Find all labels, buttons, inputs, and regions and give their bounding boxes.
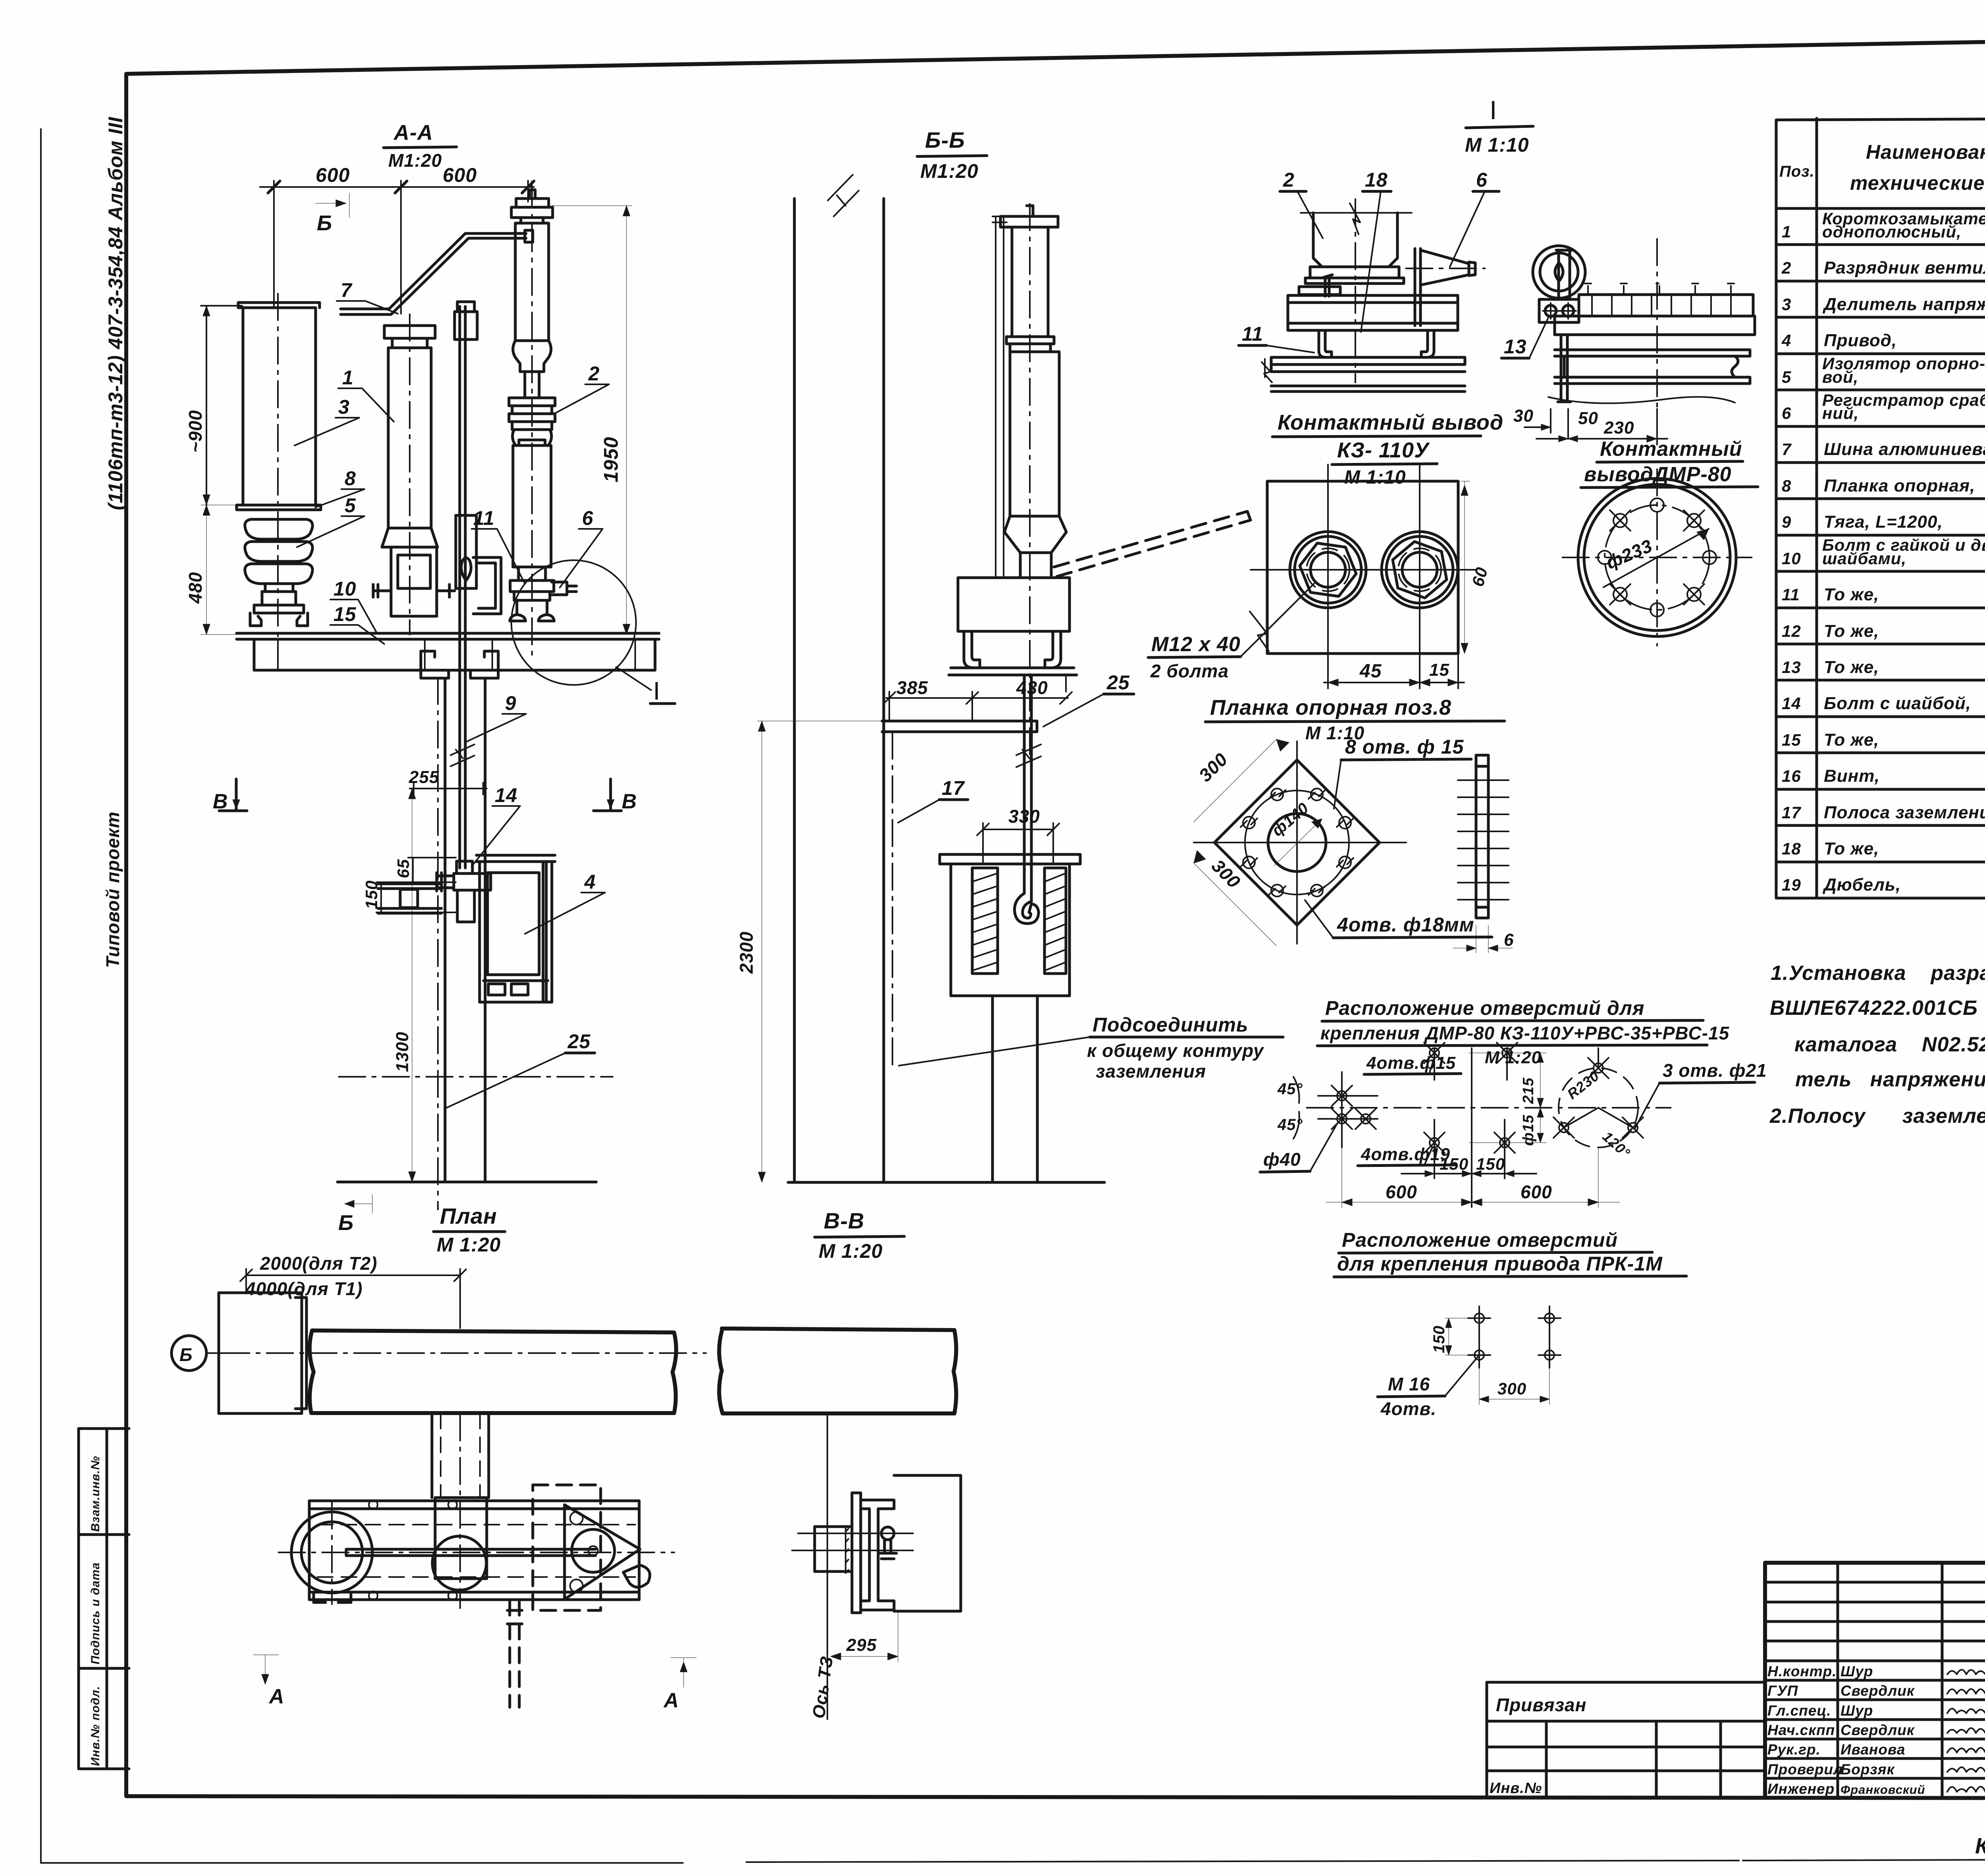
bracket box right of rod xyxy=(473,557,501,614)
svg-text:480: 480 xyxy=(185,572,206,604)
drive pad dashed xyxy=(533,1485,601,1610)
svg-text:300: 300 xyxy=(1497,1379,1526,1398)
pole head channels xyxy=(421,651,498,678)
title block signature grid xyxy=(1765,1563,1985,1798)
B-B ground line xyxy=(788,1181,1104,1184)
svg-text:Нач.скпп: Нач.скпп xyxy=(1767,1722,1835,1738)
svg-text:10: 10 xyxy=(1782,549,1801,568)
svg-text:Н.контр.: Н.контр. xyxy=(1767,1663,1837,1679)
svg-text:150: 150 xyxy=(1440,1155,1469,1173)
svg-text:Рук.гр.: Рук.гр. xyxy=(1767,1741,1821,1758)
svg-text:Франковский: Франковский xyxy=(1840,1783,1925,1797)
paper edge left xyxy=(40,129,42,1863)
planka diag dim 300 lower xyxy=(1194,850,1276,946)
svg-text:Проверил: Проверил xyxy=(1767,1761,1843,1778)
PRK dim 150 xyxy=(1445,1318,1474,1355)
svg-text:2300: 2300 xyxy=(736,931,757,974)
svg-text:Расположение отверстий для: Расположение отверстий для xyxy=(1325,997,1644,1019)
planka diag dim 300 upper xyxy=(1194,739,1289,822)
DMR-80 rail xyxy=(1555,350,1750,384)
apparatus mid cylinder xyxy=(1010,352,1059,516)
left bracket strips xyxy=(378,884,441,913)
svg-text:Ось ТЗ: Ось ТЗ xyxy=(809,1655,837,1720)
svg-text:430: 430 xyxy=(1016,677,1048,698)
svg-text:Расположение отверстий: Расположение отверстий xyxy=(1342,1229,1618,1251)
svg-text:(1106тп-т3-12) 407-3-354,84 А: (1106тп-т3-12) 407-3-354,84 Альбом III xyxy=(104,117,127,510)
PRK dim 300 xyxy=(1479,1366,1549,1405)
svg-text:2: 2 xyxy=(1781,258,1791,277)
bolt M12 right xyxy=(1382,532,1458,608)
svg-text:3: 3 xyxy=(338,396,350,418)
svg-text:15: 15 xyxy=(333,603,357,625)
svg-text:2.Полосу заземления к: 2.Полосу заземления к металлоконструкции… xyxy=(1769,1105,1985,1128)
svg-text:12: 12 xyxy=(1782,622,1801,640)
plan drive frame xyxy=(309,1501,639,1600)
svg-text:45°: 45° xyxy=(1277,1080,1303,1098)
svg-text:4отв.: 4отв. xyxy=(1380,1398,1436,1419)
svg-text:385: 385 xyxy=(896,677,928,698)
channel feet xyxy=(964,631,1061,668)
pos.5 insulator ONSh-35 xyxy=(245,519,312,539)
lower dashed rod xyxy=(510,1600,519,1707)
V-V bolt with ball xyxy=(881,1527,894,1540)
svg-text:шайбами,: шайбами, xyxy=(1822,549,1906,568)
svg-text:Свердлик: Свердлик xyxy=(1840,1722,1915,1738)
title block outer xyxy=(1765,1563,1985,1798)
rear arm verticals xyxy=(992,216,1007,576)
svg-text:1950: 1950 xyxy=(600,437,622,482)
V-V pole axis line xyxy=(827,1413,828,1719)
base channel xyxy=(237,633,659,670)
svg-text:4000(для Т1): 4000(для Т1) xyxy=(245,1278,363,1299)
svg-text:ний,: ний, xyxy=(1822,404,1859,422)
KZ-110U contact plate xyxy=(1267,481,1458,654)
svg-text:В-В: В-В xyxy=(824,1208,865,1233)
svg-text:1: 1 xyxy=(342,366,354,389)
svg-text:М 1:20: М 1:20 xyxy=(437,1234,501,1256)
svg-text:Планка опорная,: Планка опорная, xyxy=(1824,476,1975,496)
plate break mark xyxy=(1250,611,1269,651)
svg-text:15: 15 xyxy=(1782,731,1801,749)
svg-text:Б: Б xyxy=(179,1344,193,1365)
svg-text:~900: ~900 xyxy=(185,410,206,453)
svg-text:тель напряжения).: тель напряжения). xyxy=(1795,1068,1985,1091)
bottom holes 4otv f19 xyxy=(1430,1138,1439,1147)
svg-text:М1:20: М1:20 xyxy=(920,160,979,182)
dim 45 / 15 xyxy=(1324,608,1464,688)
svg-text:2 болта: 2 болта xyxy=(1150,661,1229,681)
svg-text:Наименование и: Наименование и xyxy=(1866,141,1985,163)
svg-text:ГУП: ГУП xyxy=(1767,1683,1798,1699)
lower swing rod xyxy=(1024,675,1031,893)
holes layout centerline xyxy=(1306,1107,1671,1109)
svg-text:295: 295 xyxy=(846,1635,877,1655)
svg-text:крепления ДМР-80 КЗ-110У+РВС-3: крепления ДМР-80 КЗ-110У+РВС-35+РВС-15 xyxy=(1320,1023,1730,1043)
dim 150 xyxy=(376,882,456,912)
svg-text:М 1:20: М 1:20 xyxy=(1485,1048,1542,1067)
dim 255 xyxy=(410,783,487,794)
dim 60 right xyxy=(1461,481,1470,654)
planka diamond plate xyxy=(1214,760,1380,925)
svg-text:30: 30 xyxy=(1513,406,1534,426)
arrester base in detail circle xyxy=(510,567,554,600)
svg-text:Гл.спец.: Гл.спец. xyxy=(1767,1702,1831,1719)
svg-text:18: 18 xyxy=(1365,169,1388,191)
svg-text:То же,: То же, xyxy=(1824,730,1879,750)
svg-text:ВШЛЕ674222.001СБ 1982г. ВЗ: ВШЛЕ674222.001СБ 1982г. ВЗВА (короткозам… xyxy=(1770,997,1985,1020)
svg-text:Контактный вывод: Контактный вывод xyxy=(1278,411,1503,434)
svg-text:каталога N02.52.04.81 (разр: каталога N02.52.04.81 (разрядник) и ТУ.1… xyxy=(1794,1033,1985,1056)
bottom dims 150 150 600 600 xyxy=(1401,1147,1536,1207)
svg-text:Инженер: Инженер xyxy=(1767,1781,1835,1797)
detail I channel feet xyxy=(1319,330,1434,357)
detail I bolts xyxy=(1322,275,1332,296)
svg-text:25: 25 xyxy=(1106,671,1130,694)
pos.4 drive box PRK xyxy=(476,855,555,1002)
svg-text:300: 300 xyxy=(1195,749,1231,786)
svg-text:I: I xyxy=(1490,95,1497,125)
svg-text:25: 25 xyxy=(567,1030,591,1053)
svg-text:Копировал: Слуцкая: Копировал: Слуцкая xyxy=(1975,1833,1985,1858)
svg-text:Б: Б xyxy=(338,1211,354,1235)
flange bolt holes xyxy=(1703,551,1716,564)
svg-text:однополюсный,: однополюсный, xyxy=(1822,222,1962,241)
pos.2 arrester RVS column xyxy=(511,190,553,223)
svg-text:М1:20: М1:20 xyxy=(388,150,442,171)
svg-text:8 отв. ф 15: 8 отв. ф 15 xyxy=(1345,736,1464,758)
svg-text:Контактный: Контактный xyxy=(1600,438,1742,461)
svg-text:Борзяк: Борзяк xyxy=(1840,1761,1895,1778)
svg-text:19: 19 xyxy=(1782,875,1801,894)
svg-text:13: 13 xyxy=(1782,658,1801,677)
plan main beam piece 1 xyxy=(310,1330,676,1413)
svg-text:11: 11 xyxy=(473,507,495,529)
dim 2300 xyxy=(757,721,881,1182)
svg-text:Делитель напряжения,: Делитель напряжения, xyxy=(1822,295,1985,314)
svg-text:7: 7 xyxy=(1782,440,1792,459)
hook xyxy=(1015,893,1039,924)
drive wheel xyxy=(291,1512,372,1593)
pos.8 support plate xyxy=(237,505,321,510)
svg-text:Привод,: Привод, xyxy=(1824,331,1897,350)
svg-text:45°: 45° xyxy=(1277,1116,1303,1134)
svg-text:Шур: Шур xyxy=(1840,1702,1873,1719)
plan left block xyxy=(219,1293,306,1413)
svg-text:Шур: Шур xyxy=(1840,1663,1873,1679)
detail I base plate xyxy=(1271,357,1465,372)
svg-text:Иванова: Иванова xyxy=(1840,1741,1905,1758)
svg-text:65: 65 xyxy=(394,859,412,878)
svg-text:11: 11 xyxy=(1242,323,1263,345)
svg-text:4отв.ф15: 4отв.ф15 xyxy=(1366,1053,1456,1073)
svg-text:А-А: А-А xyxy=(393,121,433,145)
svg-text:4отв.ф19: 4отв.ф19 xyxy=(1361,1145,1450,1164)
counterweight box xyxy=(940,854,1080,996)
dim 385/430 xyxy=(883,675,1072,721)
triangle plate xyxy=(565,1505,640,1599)
svg-text:То же,: То же, xyxy=(1824,621,1879,641)
dim 600+600 xyxy=(260,181,534,314)
detail I flange plates xyxy=(1305,267,1404,283)
DMR-80 ribbed cap row xyxy=(1579,295,1753,316)
svg-text:6: 6 xyxy=(1504,930,1514,950)
svg-text:Разрядник вентильный,: Разрядник вентильный, xyxy=(1824,258,1985,278)
svg-text:6: 6 xyxy=(1476,169,1488,191)
svg-text:I: I xyxy=(653,677,660,705)
section marker A right xyxy=(671,1658,696,1687)
section marker V right xyxy=(594,779,621,811)
svg-text:Привязан: Привязан xyxy=(1496,1695,1586,1715)
flange dia label xyxy=(1603,529,1709,587)
beam centerline xyxy=(222,1352,707,1354)
left pair holes with 45deg xyxy=(1337,1091,1347,1101)
svg-text:Дюбель,: Дюбель, xyxy=(1822,875,1901,895)
svg-text:6: 6 xyxy=(1782,404,1791,422)
svg-text:Типовой проект: Типовой проект xyxy=(102,812,123,968)
node B circle xyxy=(172,1336,206,1371)
pos.3 voltage divider phantom box xyxy=(238,303,320,505)
DMR-80 break line bottom xyxy=(1548,397,1735,403)
rod break mark xyxy=(451,744,474,766)
svg-text:Подсоединить: Подсоединить xyxy=(1093,1014,1249,1036)
privyazan block xyxy=(1487,1682,1765,1798)
svg-text:1300: 1300 xyxy=(393,1032,412,1072)
svg-text:16: 16 xyxy=(1782,767,1801,785)
plate centerlines xyxy=(1251,465,1477,687)
section marker B bottom xyxy=(345,1194,372,1213)
svg-text:4отв. ф18мм: 4отв. ф18мм xyxy=(1337,914,1474,936)
svg-text:150: 150 xyxy=(1476,1155,1505,1173)
detail I insulator bottom xyxy=(1313,213,1397,267)
spec table grid xyxy=(1776,117,1985,898)
DMR-80 vertical bolt left xyxy=(1556,250,1572,402)
svg-text:Б: Б xyxy=(317,211,332,235)
svg-text:вой,: вой, xyxy=(1822,368,1858,386)
svg-text:То же,: То же, xyxy=(1824,585,1879,604)
svg-text:Взам.инв.№: Взам.инв.№ xyxy=(89,1456,102,1532)
svg-text:1: 1 xyxy=(1782,222,1791,241)
svg-text:Шина алюминиевая,: Шина алюминиевая, xyxy=(1824,440,1985,459)
svg-text:Планка опорная поз.8: Планка опорная поз.8 xyxy=(1210,696,1451,719)
bolt M12 left xyxy=(1290,532,1366,608)
middle gear circle xyxy=(432,1536,486,1590)
svg-text:Винт,: Винт, xyxy=(1824,766,1880,786)
planka holes xyxy=(1339,856,1351,868)
section marker V left xyxy=(219,779,247,811)
pos.7 bus bar arm xyxy=(341,233,526,314)
detail I label xyxy=(616,667,651,690)
svg-text:600: 600 xyxy=(1521,1182,1552,1202)
svg-text:330: 330 xyxy=(1008,806,1040,827)
svg-text:Инв.№: Инв.№ xyxy=(1490,1780,1542,1797)
svg-text:Тяга, L=1200,: Тяга, L=1200, xyxy=(1824,512,1943,532)
svg-text:2: 2 xyxy=(1283,169,1295,191)
svg-text:14: 14 xyxy=(495,784,518,806)
pos.9 pull rod upper xyxy=(455,302,477,868)
mounting box xyxy=(958,578,1070,631)
svg-text:255: 255 xyxy=(409,767,439,787)
svg-text:М 16: М 16 xyxy=(1388,1374,1430,1394)
ground level dash line xyxy=(338,1076,613,1078)
svg-text:М 1:20: М 1:20 xyxy=(819,1240,883,1262)
svg-text:7: 7 xyxy=(341,279,353,301)
svg-text:8: 8 xyxy=(345,467,356,490)
V-V right box xyxy=(894,1475,961,1611)
svg-text:План: План xyxy=(440,1203,497,1228)
dim ~900 left xyxy=(201,306,242,505)
DMR-80 plate xyxy=(1555,316,1755,335)
svg-text:То же,: То же, xyxy=(1824,657,1879,677)
PRK hole pattern xyxy=(1474,1313,1484,1323)
plan beam piece 2 (V-V) xyxy=(719,1328,956,1413)
planka inner circle f140 xyxy=(1268,814,1326,871)
svg-text:ф15: ф15 xyxy=(1520,1114,1537,1146)
svg-text:6: 6 xyxy=(582,507,594,529)
svg-text:5: 5 xyxy=(345,494,356,517)
margin stamp boxes xyxy=(79,1429,129,1769)
svg-text:А: А xyxy=(663,1689,679,1712)
plan column stem xyxy=(432,1413,489,1579)
pos.1 short-circuiter KZ-110U column xyxy=(382,326,437,616)
svg-text:230: 230 xyxy=(1603,418,1634,438)
grounding strip dash-dot xyxy=(892,732,893,1069)
svg-text:13: 13 xyxy=(1504,335,1527,358)
svg-text:3: 3 xyxy=(1782,295,1791,314)
svg-text:Болт с шайбой,: Болт с шайбой, xyxy=(1824,694,1971,713)
top holes 4otv f15 xyxy=(1430,1048,1439,1058)
svg-text:к общему контуру: к общему контуру xyxy=(1087,1040,1264,1061)
svg-text:50: 50 xyxy=(1578,409,1598,428)
svg-text:Инв.№ подл.: Инв.№ подл. xyxy=(89,1686,102,1766)
svg-text:15: 15 xyxy=(1429,660,1449,680)
svg-text:Свердлик: Свердлик xyxy=(1840,1683,1915,1699)
svg-text:600: 600 xyxy=(443,164,477,186)
svg-text:3 отв. ф21: 3 отв. ф21 xyxy=(1663,1060,1767,1081)
svg-text:600: 600 xyxy=(1386,1182,1417,1202)
svg-text:2000(для Т2): 2000(для Т2) xyxy=(260,1253,378,1274)
dim 1950 xyxy=(552,206,632,634)
frame bolts xyxy=(369,1500,378,1509)
svg-text:14: 14 xyxy=(1782,694,1801,713)
right dashed circle group xyxy=(1559,1068,1638,1147)
svg-text:150: 150 xyxy=(1430,1325,1448,1353)
svg-text:300: 300 xyxy=(1208,855,1245,892)
V-V left lug xyxy=(815,1527,852,1571)
break mark left xyxy=(1262,359,1272,382)
planka bolt circle xyxy=(1245,791,1349,895)
support bar pos.25 xyxy=(882,721,1037,732)
V-V channel section xyxy=(861,1500,894,1610)
svg-text:9: 9 xyxy=(1782,513,1791,531)
B-B pole xyxy=(794,199,884,1182)
planka side view strip xyxy=(1476,755,1488,918)
svg-text:Полоса заземления,: Полоса заземления, xyxy=(1824,803,1985,822)
svg-text:КЗ- 110У: КЗ- 110У xyxy=(1337,438,1430,462)
svg-text:В: В xyxy=(622,790,637,813)
svg-text:17: 17 xyxy=(942,777,965,799)
pole below base (A-A) xyxy=(445,678,485,1182)
svg-text:То же,: То же, xyxy=(1824,839,1879,858)
drive rod xyxy=(346,1549,595,1556)
svg-text:5: 5 xyxy=(1782,368,1791,386)
svg-text:А: А xyxy=(268,1685,285,1708)
svg-text:11: 11 xyxy=(1782,585,1800,604)
svg-text:Б-Б: Б-Б xyxy=(925,127,965,152)
dim 1300 xyxy=(409,789,416,1182)
svg-text:60: 60 xyxy=(1468,565,1491,588)
svg-text:Подпись и дата: Подпись и дата xyxy=(89,1562,102,1664)
paper edge bottom xyxy=(41,1858,1985,1863)
svg-text:заземления: заземления xyxy=(1096,1061,1206,1082)
svg-text:10: 10 xyxy=(333,578,357,600)
DMR-80 left bolt bracket xyxy=(1539,299,1579,322)
planka centerlines xyxy=(1194,741,1406,944)
svg-text:технические данные.: технические данные. xyxy=(1850,172,1985,194)
svg-text:1.Установка разработана: 1.Установка разработана на основании чер… xyxy=(1771,962,1985,985)
svg-text:4: 4 xyxy=(1781,331,1791,350)
svg-text:М12 х 40: М12 х 40 xyxy=(1151,633,1241,656)
ground bottom line xyxy=(337,1181,596,1184)
B-B pole below counterweight xyxy=(992,996,1037,1182)
dim 480 left xyxy=(201,505,238,634)
svg-text:М 1:10: М 1:10 xyxy=(1344,467,1406,488)
DMR-80 flange circle xyxy=(1578,478,1736,636)
svg-text:9: 9 xyxy=(505,692,516,714)
center vertical xyxy=(1434,1048,1507,1207)
section marker A left xyxy=(253,1655,279,1684)
svg-text:2: 2 xyxy=(588,362,600,385)
svg-text:18: 18 xyxy=(1782,839,1801,858)
detail I circle xyxy=(511,560,636,685)
svg-text:45: 45 xyxy=(1359,661,1382,682)
vertical dims 215/215 xyxy=(1469,1053,1546,1143)
svg-text:Поз.: Поз. xyxy=(1779,163,1815,180)
latch xyxy=(623,1565,650,1587)
diagonal dashed tie rod xyxy=(1054,511,1251,576)
dim 330 xyxy=(977,823,1059,864)
svg-text:17: 17 xyxy=(1782,803,1801,822)
svg-text:для крепления привода ПРК-1М: для крепления привода ПРК-1М xyxy=(1337,1253,1663,1275)
svg-text:ф233: ф233 xyxy=(1603,535,1655,573)
svg-text:М 1:10: М 1:10 xyxy=(1465,134,1529,156)
section marker B top xyxy=(316,193,349,218)
apparatus centerline xyxy=(1029,203,1031,756)
svg-text:ф140: ф140 xyxy=(1269,799,1312,840)
svg-text:8: 8 xyxy=(1782,476,1791,495)
svg-text:ф40: ф40 xyxy=(1263,1149,1301,1170)
svg-text:600: 600 xyxy=(316,164,350,186)
dim 65 xyxy=(408,858,456,882)
V-V centerline xyxy=(792,1550,913,1551)
svg-text:В: В xyxy=(213,790,228,813)
pos.14 rod clamp xyxy=(454,861,491,922)
detail I rail beam xyxy=(1288,295,1458,330)
V-V clamp plate xyxy=(852,1493,861,1613)
pos.6 registrator cone xyxy=(1415,249,1475,326)
DMR-80 side view: eye ring xyxy=(1533,246,1585,298)
svg-text:4: 4 xyxy=(584,871,596,893)
svg-text:215: 215 xyxy=(1520,1078,1537,1104)
apparatus top insulator xyxy=(1000,206,1058,337)
